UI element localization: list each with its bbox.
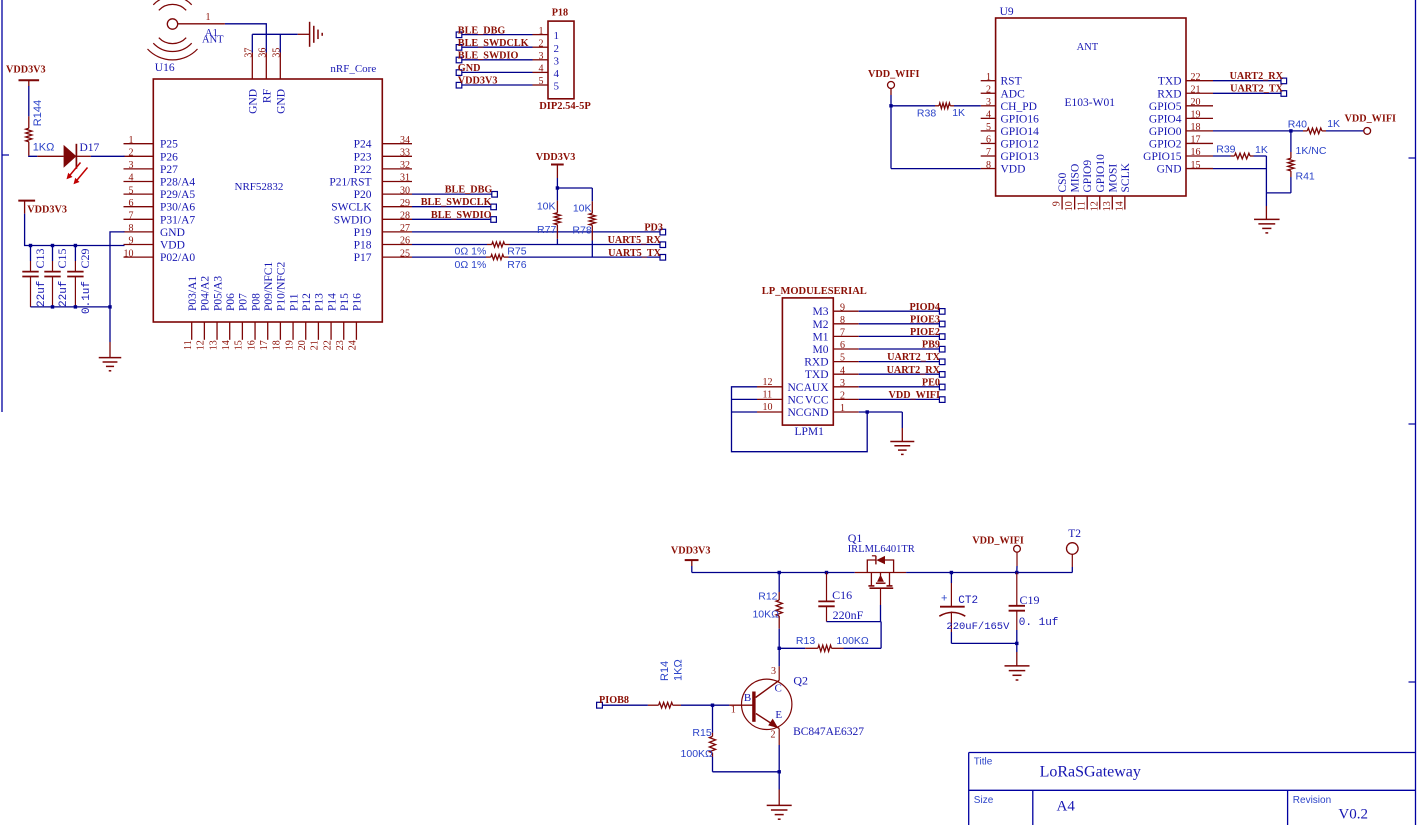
svg-text:D17: D17	[80, 142, 100, 154]
U9 bottom pin 12 GPIO10	[1089, 154, 1107, 211]
svg-text:1: 1	[129, 135, 134, 146]
svg-text:P11: P11	[288, 293, 300, 311]
svg-text:+: +	[941, 593, 947, 605]
ground (antenna shield)	[298, 22, 323, 47]
capacitor CT2 220uF/165V (polarized)	[939, 573, 1010, 633]
svg-text:P02/A0: P02/A0	[160, 252, 195, 264]
U16 bottom pin 17 P09/NFC1	[259, 262, 275, 351]
svg-text:P17: P17	[354, 252, 372, 264]
svg-text:GPIO4: GPIO4	[1149, 113, 1182, 125]
wire CT2 to ground rail	[951, 632, 1016, 643]
svg-text:1K: 1K	[1255, 144, 1268, 156]
wire LPM1 RXD to UART2_TX	[859, 361, 940, 363]
wire VDD_WIFI down to VDD pin 8	[889, 95, 980, 169]
svg-text:16: 16	[1191, 147, 1201, 158]
U9 bottom pin 13 MOSI	[1102, 164, 1120, 212]
U9 right pin 18 GPIO0	[1149, 122, 1213, 138]
svg-text:12: 12	[763, 377, 773, 388]
svg-text:R77: R77	[537, 224, 556, 236]
U9 left pin 7 GPIO13	[981, 147, 1039, 163]
U16 bottom pin 12 P04/A2	[196, 276, 212, 351]
svg-text:LP_MODULESERIAL: LP_MODULESERIAL	[762, 286, 867, 297]
svg-text:1K: 1K	[952, 107, 965, 119]
U9 right pin 20 GPIO5	[1149, 97, 1213, 113]
LPM1 right pin 3 AUX	[804, 378, 859, 394]
P18 pin 5 net VDD3V3	[456, 76, 559, 93]
svg-text:6: 6	[840, 340, 845, 351]
svg-text:7: 7	[840, 328, 845, 339]
svg-text:E: E	[775, 709, 782, 721]
resistor R76 0R 1%	[455, 255, 527, 272]
net flag UART2_TX	[887, 352, 945, 364]
U9 left pin 3 CH_PD	[981, 97, 1037, 113]
svg-text:ADC: ADC	[1001, 88, 1026, 100]
U16 top pin 35 GND	[271, 48, 287, 114]
svg-text:PIOB8: PIOB8	[599, 695, 629, 706]
U16 left pin 1 P25	[124, 135, 179, 151]
svg-text:11: 11	[1077, 201, 1088, 211]
svg-text:5: 5	[554, 81, 560, 93]
sheet border right edge	[1409, 0, 1416, 825]
net flag UART2_TX	[1230, 84, 1286, 97]
svg-text:SWDIO: SWDIO	[334, 214, 372, 226]
U16 bottom pin 23 P15	[335, 293, 351, 350]
svg-text:DIP2.54-5P: DIP2.54-5P	[539, 101, 591, 112]
LPM1 left pin 11 NC	[757, 389, 804, 406]
svg-text:GND: GND	[1157, 164, 1182, 176]
svg-text:GND: GND	[160, 227, 185, 239]
U16 left pin 9 VDD	[124, 236, 185, 252]
U9 right pin 17 GPIO2	[1149, 135, 1213, 151]
U9 left pin 2 ADC	[981, 84, 1025, 100]
LED D17	[37, 142, 99, 169]
svg-text:10: 10	[1064, 201, 1075, 211]
svg-text:P14: P14	[326, 293, 338, 311]
resistor R14 1K	[648, 659, 685, 708]
wire R76 to UART5_TX flag	[509, 256, 661, 258]
U16 left pin 5 P29/A5	[124, 185, 196, 201]
svg-text:5: 5	[840, 353, 845, 364]
svg-text:TXD: TXD	[805, 369, 829, 381]
svg-text:C16: C16	[832, 588, 852, 602]
svg-text:VDD3V3: VDD3V3	[671, 546, 711, 557]
svg-text:10K: 10K	[537, 201, 556, 213]
title block text Title: LoRaSGateway	[974, 757, 1141, 781]
ground (decoupling)	[99, 342, 122, 371]
svg-text:C15: C15	[55, 248, 69, 268]
wire Q2 collector to R12/R13 node	[778, 648, 780, 666]
svg-text:30: 30	[400, 185, 410, 196]
power VDD3V3 (pull-ups)	[536, 152, 576, 178]
svg-text:ANT: ANT	[202, 35, 224, 46]
svg-text:RXD: RXD	[804, 357, 828, 369]
junction dots on VDD rail	[29, 244, 77, 247]
U16 left pin 6 P30/A6	[124, 198, 196, 214]
svg-text:33: 33	[400, 148, 410, 159]
LPM1 right pin 2 VCC	[805, 391, 859, 407]
wire C16 to Q1 gate	[827, 605, 882, 648]
sheet border left edge	[2, 0, 9, 412]
svg-text:7: 7	[986, 147, 991, 158]
svg-text:10: 10	[763, 402, 773, 413]
net flag PIOB8	[597, 695, 629, 708]
svg-text:R12: R12	[758, 591, 777, 603]
wire R38 to CH_PD pin 3	[954, 105, 981, 107]
ground (U9)	[1254, 206, 1280, 233]
resistor R15 100K	[681, 705, 716, 760]
svg-text:14: 14	[221, 340, 232, 350]
svg-text:PIOE3: PIOE3	[910, 314, 940, 325]
svg-text:P16: P16	[352, 293, 364, 311]
title block text Size: A4	[974, 795, 1076, 815]
U9 right pin 22 TXD	[1158, 72, 1213, 88]
svg-text:RXD: RXD	[1157, 88, 1181, 100]
capacitor C19 0.1uf	[1009, 573, 1059, 631]
svg-text:22uf: 22uf	[36, 281, 48, 307]
svg-text:2: 2	[539, 38, 544, 49]
svg-text:17: 17	[1191, 135, 1201, 146]
svg-text:2: 2	[986, 84, 991, 95]
wire LPM1 M1 to PIOE2	[859, 335, 940, 337]
svg-text:P15: P15	[339, 293, 351, 311]
resistor R12 10K	[752, 573, 782, 629]
svg-text:ANT: ANT	[1077, 42, 1099, 53]
ground (power switch)	[1005, 652, 1030, 680]
svg-text:37: 37	[243, 48, 254, 58]
svg-text:6: 6	[129, 198, 134, 209]
svg-text:P21/RST: P21/RST	[329, 177, 371, 189]
svg-text:100KΩ: 100KΩ	[836, 635, 869, 647]
svg-text:8: 8	[986, 160, 991, 171]
svg-text:220uF/165V: 220uF/165V	[946, 621, 1010, 633]
svg-text:GPIO16: GPIO16	[1001, 113, 1040, 125]
svg-text:8: 8	[840, 315, 845, 326]
svg-text:5: 5	[986, 122, 991, 133]
wire PIOB8 to R14	[602, 704, 648, 706]
capacitor C16 220nF	[818, 573, 863, 622]
svg-text:BLE_SWDCLK: BLE_SWDCLK	[421, 197, 492, 208]
svg-text:P03/A1: P03/A1	[187, 276, 199, 311]
capacitor C15 22uf	[44, 246, 70, 308]
svg-text:5: 5	[129, 185, 134, 196]
svg-text:U16: U16	[155, 62, 175, 74]
svg-text:UART2_TX: UART2_TX	[1230, 84, 1283, 95]
U16 right pin 26 P18	[354, 236, 412, 252]
net flag BLE_SWDIO (U16 pin 28)	[412, 210, 496, 223]
svg-text:GPIO5: GPIO5	[1149, 101, 1182, 113]
U16 right pin 29 SWCLK	[331, 198, 412, 214]
svg-text:0Ω 1%: 0Ω 1%	[455, 245, 487, 257]
wire LED to U16 pin 2	[91, 155, 125, 157]
U16 right pin 33 P23	[354, 148, 412, 164]
svg-text:B: B	[744, 692, 751, 704]
U16 top pin 36 RF	[257, 48, 273, 103]
U9 left pin 4 GPIO16	[981, 110, 1039, 126]
svg-text:C19: C19	[1020, 593, 1040, 607]
svg-text:CH_PD: CH_PD	[1001, 101, 1037, 113]
U16 left pin 8 GND	[124, 223, 185, 239]
svg-text:A4: A4	[1057, 799, 1076, 815]
svg-text:GND: GND	[804, 407, 829, 419]
svg-text:20: 20	[297, 340, 308, 350]
svg-text:16: 16	[246, 340, 257, 350]
svg-text:P20: P20	[354, 189, 372, 201]
net flag VDD_WIFI	[888, 390, 945, 402]
U9 left pin 6 GPIO12	[981, 135, 1039, 151]
wire LPM1 VCC to VDD_WIFI	[859, 398, 940, 400]
svg-text:BLE_DBG: BLE_DBG	[445, 185, 493, 196]
svg-text:P08: P08	[250, 293, 262, 311]
svg-text:UART2_TX: UART2_TX	[887, 352, 940, 363]
svg-text:P09/NFC1: P09/NFC1	[263, 262, 275, 311]
svg-text:2: 2	[771, 729, 776, 740]
svg-text:2: 2	[840, 391, 845, 402]
svg-text:Title: Title	[974, 757, 993, 768]
svg-text:21: 21	[1191, 84, 1201, 95]
antenna pin 1 lead	[178, 12, 225, 24]
svg-text:P07: P07	[238, 293, 250, 311]
svg-text:14: 14	[1114, 201, 1125, 211]
U9 right pin 15 GND	[1157, 160, 1213, 176]
svg-text:10K: 10K	[573, 203, 592, 215]
svg-text:NC: NC	[788, 407, 804, 419]
wire to ground (LPM1)	[901, 412, 903, 428]
svg-text:R144: R144	[32, 100, 44, 126]
net flag PB9	[922, 340, 945, 352]
wire Q2 emitter to ground	[778, 745, 781, 790]
LPM1 right pin 4 TXD	[805, 365, 859, 381]
wire R144 to LED D17	[29, 155, 38, 157]
svg-text:4: 4	[554, 68, 560, 80]
svg-text:C13: C13	[33, 248, 47, 268]
power VDD_WIFI (U9 supply)	[868, 69, 920, 95]
svg-text:PD3: PD3	[644, 223, 663, 234]
svg-text:0. 1uf: 0. 1uf	[1019, 617, 1059, 629]
svg-text:VDD3V3: VDD3V3	[6, 65, 46, 76]
net flag BLE_SWDCLK (U16 pin 29)	[412, 197, 496, 210]
module LPM1 LP_MODULESERIAL body	[762, 286, 867, 438]
svg-text:R78: R78	[572, 225, 591, 237]
U16 bottom pin 13 P05/A3	[208, 276, 224, 351]
svg-text:GPIO15: GPIO15	[1143, 151, 1182, 163]
wire R15 to emitter	[713, 757, 780, 772]
transistor Q2 BC847AE6327 (NPN)	[729, 666, 864, 745]
svg-text:PIOD4: PIOD4	[909, 302, 940, 313]
svg-text:6: 6	[986, 135, 991, 146]
svg-text:GPIO9: GPIO9	[1082, 160, 1094, 193]
svg-text:VDD: VDD	[160, 240, 185, 252]
svg-text:R39: R39	[1216, 144, 1235, 156]
wire U9 GPIO0 pin 18 to R40	[1213, 129, 1303, 132]
svg-text:UART5_RX: UART5_RX	[608, 235, 662, 246]
svg-text:1K/NC: 1K/NC	[1296, 145, 1327, 157]
svg-text:VDD_WIFI: VDD_WIFI	[888, 390, 940, 401]
svg-text:10KΩ: 10KΩ	[752, 608, 779, 620]
svg-text:R13: R13	[796, 635, 815, 647]
svg-text:3: 3	[986, 97, 991, 108]
svg-text:NRF52832: NRF52832	[235, 181, 284, 193]
svg-text:VDD3V3: VDD3V3	[458, 76, 498, 87]
svg-text:PB9: PB9	[922, 340, 940, 351]
svg-text:15: 15	[1191, 160, 1201, 171]
U9 right pin 16 GPIO15	[1143, 147, 1213, 163]
resistor R75 0R 1%	[455, 242, 527, 257]
U16 right pin 28 SWDIO	[334, 211, 412, 227]
svg-text:17: 17	[259, 340, 270, 350]
P18 pin 3 net BLE_SWDIO	[456, 51, 559, 68]
title block frame	[969, 753, 1416, 825]
wire LPM1 GND pin 1	[859, 410, 903, 413]
svg-text:VDD_WIFI: VDD_WIFI	[868, 69, 920, 80]
wire R78 to UART5_TX	[591, 241, 593, 258]
svg-text:M2: M2	[813, 319, 829, 331]
U9 right pin 19 GPIO4	[1149, 110, 1213, 126]
svg-text:18: 18	[272, 340, 283, 350]
svg-text:26: 26	[400, 236, 410, 247]
svg-text:nRF_Core: nRF_Core	[330, 63, 376, 75]
svg-text:VCC: VCC	[805, 394, 829, 406]
P18 pin 1 net BLE_DBG	[456, 25, 559, 42]
svg-text:12: 12	[1089, 201, 1100, 211]
svg-text:11: 11	[763, 389, 773, 400]
svg-text:P27: P27	[160, 164, 178, 176]
U16 left pin 4 P28/A4	[124, 173, 196, 189]
svg-text:AUX: AUX	[804, 382, 830, 394]
svg-text:VDD3V3: VDD3V3	[536, 152, 576, 163]
svg-text:VDD_WIFI: VDD_WIFI	[1345, 114, 1397, 125]
svg-text:19: 19	[1191, 110, 1201, 121]
net flag PIOE2	[910, 327, 945, 339]
svg-text:R38: R38	[917, 108, 936, 120]
U16 right pin 27 P19	[354, 223, 412, 239]
wire VDD_WIFI to rail	[1016, 566, 1018, 573]
transistor Q1 IRLML6401TR (P-MOSFET)	[848, 531, 915, 605]
svg-text:13: 13	[208, 340, 219, 350]
svg-text:36: 36	[257, 48, 268, 58]
svg-text:P28/A4: P28/A4	[160, 177, 195, 189]
svg-text:12: 12	[196, 340, 207, 350]
svg-text:21: 21	[310, 340, 321, 350]
ground (LPM1)	[890, 428, 914, 454]
net flag UART2_RX	[887, 365, 945, 377]
svg-text:R15: R15	[692, 727, 711, 739]
svg-text:GPIO14: GPIO14	[1001, 126, 1040, 138]
LPM1 right pin 5 RXD	[804, 353, 858, 369]
U16 right pin 32 P22	[354, 160, 412, 176]
svg-text:Q2: Q2	[793, 674, 808, 688]
wire R13 to gate node	[844, 647, 882, 649]
wire U16 pin 26 (UART5_RX)	[412, 244, 487, 246]
wire LPM1 M0 to PB9	[859, 348, 940, 350]
svg-text:LPM1: LPM1	[795, 426, 825, 438]
svg-text:22uf: 22uf	[58, 281, 70, 307]
svg-text:7: 7	[129, 211, 134, 222]
svg-text:2: 2	[129, 148, 134, 159]
svg-text:P05/A3: P05/A3	[212, 276, 224, 311]
svg-text:P22: P22	[354, 164, 372, 176]
LPM1 right pin 6 M0	[813, 340, 859, 356]
svg-text:3: 3	[129, 160, 134, 171]
svg-text:CS0: CS0	[1057, 172, 1069, 192]
svg-text:28: 28	[400, 211, 410, 222]
wire VDD3V3 to pullups	[556, 178, 593, 201]
svg-text:GND: GND	[458, 63, 481, 74]
power VDD_WIFI (R40)	[1345, 114, 1397, 135]
resistor R78 10K	[572, 201, 595, 240]
U16 bottom pin 16 P08	[246, 293, 262, 350]
wire R77 to UART5_RX	[556, 239, 558, 245]
resistor R39 1K	[1216, 144, 1268, 159]
svg-text:GND: GND	[276, 89, 288, 114]
U16 bottom pin 19 P11	[284, 293, 300, 350]
U16 left pin 3 P27	[124, 160, 179, 176]
U16 bottom pin 21 P13	[310, 293, 326, 350]
wire U9 RXD pin 21 to UART2_TX flag	[1213, 92, 1281, 94]
capacitor C29 0.1uf	[67, 246, 93, 315]
svg-text:4: 4	[129, 173, 134, 184]
U16 right pin 30 P20	[354, 185, 412, 201]
svg-text:P12: P12	[301, 293, 313, 311]
LPM1 right pin 7 M1	[813, 328, 859, 344]
svg-text:C: C	[775, 683, 782, 695]
wire R40 to VDD_WIFI	[1326, 130, 1364, 132]
wire R41 bottom to ground node	[1266, 177, 1291, 193]
svg-text:M3: M3	[813, 306, 829, 318]
svg-text:1K: 1K	[1327, 118, 1340, 130]
svg-text:100KΩ: 100KΩ	[681, 748, 714, 760]
svg-text:P10/NFC2: P10/NFC2	[276, 262, 288, 311]
svg-text:C29: C29	[78, 248, 92, 268]
ground (Q2 emitter)	[767, 790, 792, 820]
net flag PIOE3	[910, 314, 945, 326]
P18 pin 2 net BLE_SWDCLK	[456, 38, 559, 55]
svg-text:Size: Size	[974, 795, 994, 806]
wire U9 GPIO15 pin 16 to R39	[1213, 155, 1231, 157]
U16 top pin 37 GND	[243, 48, 259, 114]
svg-text:29: 29	[400, 198, 410, 209]
wire R14 to Q2 base	[681, 704, 729, 707]
U16 right pin 25 P17	[354, 248, 412, 264]
svg-text:P18: P18	[552, 8, 568, 19]
wire U16 pins 37/35 to ground	[252, 34, 297, 52]
U9 bottom pin 14 SCLK	[1114, 162, 1132, 211]
wire R39 to ground node	[1254, 156, 1267, 193]
svg-text:NC: NC	[788, 382, 804, 394]
wire U16 pin 25 (UART5_TX)	[412, 256, 486, 258]
U16 bottom pin 24 P16	[348, 293, 364, 350]
svg-text:P06: P06	[225, 293, 237, 311]
svg-text:3: 3	[539, 51, 544, 62]
LPM1 left pin 12 NC	[757, 377, 804, 394]
svg-text:5: 5	[539, 76, 544, 87]
wire to ground	[109, 307, 111, 342]
svg-text:NC: NC	[788, 394, 804, 406]
U16 left pin 2 P26	[124, 148, 179, 164]
svg-text:34: 34	[400, 135, 410, 146]
U16 bottom pin 20 P12	[297, 293, 313, 350]
svg-text:PIOE2: PIOE2	[910, 327, 940, 338]
svg-text:GPIO10: GPIO10	[1095, 154, 1107, 193]
svg-text:P13: P13	[314, 293, 326, 311]
svg-text:RST: RST	[1001, 76, 1022, 88]
resistor R144 1K	[26, 100, 55, 156]
svg-text:RF: RF	[262, 89, 274, 103]
U16 bottom pin 14 P06	[221, 293, 237, 350]
svg-text:GPIO0: GPIO0	[1149, 126, 1182, 138]
svg-text:R40: R40	[1288, 118, 1307, 130]
resistor R40 1K	[1288, 118, 1340, 134]
svg-text:15: 15	[234, 340, 245, 350]
